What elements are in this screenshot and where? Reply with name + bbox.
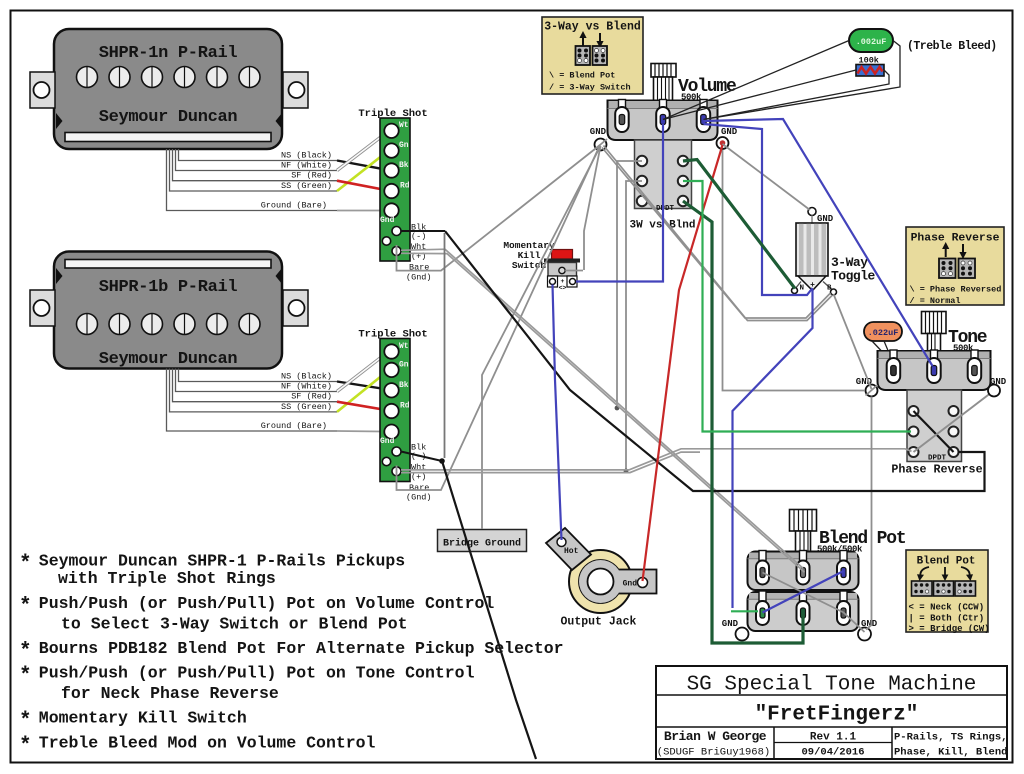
Triple Shot 1 pad labels xyxy=(406,223,432,283)
pickup SHPR-1b body xyxy=(54,252,282,369)
svg-text:SF (Red): SF (Red) xyxy=(291,171,332,181)
blend pot upper lug stems xyxy=(759,551,847,561)
wire: volume GND right to tone GND left xyxy=(723,150,866,391)
svg-text:"FretFingerz": "FretFingerz" xyxy=(755,704,919,727)
output jack hot lug xyxy=(546,528,591,570)
Triple Shot 1 output pads xyxy=(382,227,401,256)
svg-text:Seymour Duncan SHPR-1 P-Rails: Seymour Duncan SHPR-1 P-Rails Pickups xyxy=(39,552,405,571)
svg-text:Push/Push (or Push/Pull) Pot o: Push/Push (or Push/Pull) Pot on Tone Con… xyxy=(39,664,475,683)
title block xyxy=(656,666,1007,759)
svg-text:Bk: Bk xyxy=(399,381,409,390)
svg-text:SHPR-1n P-Rail: SHPR-1n P-Rail xyxy=(99,44,238,63)
svg-text:Ground (Bare): Ground (Bare) xyxy=(261,421,327,431)
Triple Shot 1 Blk pad wire xyxy=(401,230,445,232)
volume DPDT push-pull section xyxy=(635,140,692,209)
wire: TS1 black down-link xyxy=(444,233,446,458)
svg-text:3-Way vs Blend: 3-Way vs Blend xyxy=(544,21,641,34)
wire: volume mid lug to kill switch blue xyxy=(576,124,663,282)
svg-text:Gn: Gn xyxy=(399,141,409,150)
notes bullet list xyxy=(19,552,564,759)
blend pot shaft xyxy=(790,510,817,552)
volume pot body xyxy=(608,101,718,141)
legend box: Blend Pot xyxy=(906,550,988,632)
wire: volume GND to bridge ground xyxy=(482,146,601,529)
svg-text:Gnd: Gnd xyxy=(623,580,638,589)
svg-text:DPDT: DPDT xyxy=(928,455,947,463)
svg-text:N: N xyxy=(800,285,805,293)
pickup SHPR-1b lead crossing: red SF to Rd xyxy=(337,402,388,411)
blend pot lower lug stems xyxy=(759,591,847,601)
svg-text:SHPR-1b P-Rail: SHPR-1b P-Rail xyxy=(99,278,238,297)
svg-text:/ = 3-Way Switch: / = 3-Way Switch xyxy=(549,83,631,93)
kill switch body xyxy=(548,263,577,277)
svg-text:to Select 3-Way Switch or Blen: to Select 3-Way Switch or Blend Pot xyxy=(61,615,408,634)
svg-text:*: * xyxy=(19,710,32,733)
svg-text:Seymour Duncan: Seymour Duncan xyxy=(99,350,238,369)
svg-text:Output Jack: Output Jack xyxy=(561,616,637,629)
svg-text:09/04/2016: 09/04/2016 xyxy=(801,747,864,759)
svg-text:for Neck Phase Reverse: for Neck Phase Reverse xyxy=(61,684,279,703)
pickup SHPR-1b right mounting tab xyxy=(283,290,308,326)
svg-text:Momentary Kill Switch: Momentary Kill Switch xyxy=(39,709,247,728)
Triple Shot 2 pad labels xyxy=(406,443,432,503)
treble bleed capacitor .002uF xyxy=(849,29,893,52)
legend box: 3-Way vs Blend xyxy=(542,17,643,94)
Triple Shot 1 hole labels xyxy=(380,121,410,225)
svg-text:Gn: Gn xyxy=(399,361,409,370)
svg-text:*: * xyxy=(19,553,32,576)
legend up arrow xyxy=(582,36,584,46)
svg-text:*: * xyxy=(19,665,32,688)
wire: toggle B to blend blue xyxy=(733,289,813,608)
pickup SHPR-1b bare lead to Gnd xyxy=(337,430,385,433)
svg-text:/ = Normal: / = Normal xyxy=(910,296,961,306)
svg-text:SS (Green): SS (Green) xyxy=(281,402,332,412)
svg-text:Blend Pot: Blend Pot xyxy=(917,556,976,568)
wire: black hot run TS1 to phase switch xyxy=(445,231,985,491)
svg-text:Wt: Wt xyxy=(399,342,409,351)
svg-text:(Gnd): (Gnd) xyxy=(406,273,432,283)
svg-text:Toggle: Toggle xyxy=(831,269,876,284)
svg-text:Bridge Ground: Bridge Ground xyxy=(443,538,521,550)
svg-text:Brian W George: Brian W George xyxy=(664,729,767,744)
wire: volume DPDT upper-left leg xyxy=(617,161,642,408)
tone DPDT jumper black xyxy=(914,411,954,452)
volume pot lug holes xyxy=(619,115,625,125)
svg-text:*: * xyxy=(19,596,32,619)
3-way toggle base xyxy=(798,276,826,291)
blend pot upper lugs xyxy=(756,561,850,585)
pickup SHPR-1n left mounting tab xyxy=(30,72,55,108)
svg-text:Push/Push (or Push/Pull) Pot o: Push/Push (or Push/Pull) Pot on Volume C… xyxy=(39,594,495,613)
volume GND slash marks xyxy=(594,139,607,150)
tone capacitor .022uF xyxy=(864,322,902,341)
svg-text:Seymour Duncan: Seymour Duncan xyxy=(99,108,238,127)
svg-text:Phase Reverse: Phase Reverse xyxy=(911,233,1000,245)
svg-text:Bourns PDB182 Blend Pot For Al: Bourns PDB182 Blend Pot For Alternate Pi… xyxy=(39,639,564,658)
wire: black run TS2 junction down xyxy=(442,461,536,759)
tone DPDT jumper gray to GND xyxy=(914,391,995,453)
treble bleed resistor 100k xyxy=(856,65,884,77)
tone pot lug stems xyxy=(890,350,978,359)
wire: toggle B to tone GND left xyxy=(834,294,872,389)
wire: TS1 white pair to blend pot xyxy=(401,249,803,568)
svg-text:P-Rails, TS Rings,: P-Rails, TS Rings, xyxy=(894,732,1007,744)
svg-text:Wt: Wt xyxy=(399,121,409,130)
wire: blend lower-left green link xyxy=(731,610,758,612)
Triple Shot 1 solder holes xyxy=(384,124,398,218)
wire: volume DPDT to toggle N dark green xyxy=(683,160,795,289)
kill switch terminal lugs xyxy=(548,276,578,287)
svg-text:<>: <> xyxy=(559,285,567,292)
blend legend left curved arrow xyxy=(920,567,929,577)
svg-text:< = Neck (CCW): < = Neck (CCW) xyxy=(909,603,985,613)
pickup SHPR-1n harness labels xyxy=(261,151,332,211)
3-way toggle GND terminal xyxy=(808,208,834,225)
wire: volume DPDT mid-left leg xyxy=(626,181,642,471)
wire: TS1 bare to volume GND xyxy=(397,145,601,271)
momentary kill switch labels xyxy=(503,240,555,271)
tone pot lug holes xyxy=(891,366,897,376)
svg-text:.002uF: .002uF xyxy=(856,37,887,47)
blend legend center arrow xyxy=(944,567,946,576)
pickup SHPR-1b harness labels xyxy=(261,372,332,432)
wire: volume DPDT to tone DPDT green xyxy=(683,181,911,432)
wire: blend crossover blue xyxy=(763,571,844,613)
svg-text:SS (Green): SS (Green) xyxy=(281,181,332,191)
kill switch internal terminal xyxy=(559,267,565,273)
blend pot GND left terminal xyxy=(722,619,749,641)
Triple Shot 2 output pads xyxy=(382,447,401,476)
svg-text:Bk: Bk xyxy=(399,161,409,170)
svg-text:GND: GND xyxy=(722,619,739,629)
blend pot lower lug holes xyxy=(760,608,765,618)
Triple Shot 2 solder holes xyxy=(384,344,398,439)
blend pot upper gang body xyxy=(748,552,859,591)
pickup SHPR-1b lead crossing: black NS to Bk xyxy=(337,382,388,390)
3-way toggle N terminal xyxy=(792,288,798,294)
volume GND right terminal xyxy=(717,127,738,149)
svg-text:Rd: Rd xyxy=(400,402,410,411)
svg-text:*: * xyxy=(19,735,32,758)
svg-text:Phase Reverse: Phase Reverse xyxy=(891,463,982,477)
treble bleed wiring xyxy=(663,41,900,120)
legend box: Phase Reverse xyxy=(906,227,1004,305)
svg-text:GND: GND xyxy=(721,127,738,137)
svg-text:(-): (-) xyxy=(411,232,426,242)
pickup SHPR-1n harness wires xyxy=(167,149,338,211)
svg-text:GND: GND xyxy=(990,377,1007,387)
svg-text:> = Bridge (CW): > = Bridge (CW) xyxy=(909,624,990,634)
svg-text:(Gnd): (Gnd) xyxy=(406,493,432,503)
tone DPDT push-pull section xyxy=(907,390,962,462)
3-way toggle body xyxy=(796,223,828,276)
svg-text:Treble Bleed Mod on Volume Con: Treble Bleed Mod on Volume Control xyxy=(39,734,376,753)
svg-text:Phase, Kill, Blend: Phase, Kill, Blend xyxy=(894,747,1007,759)
blend pot lower lugs xyxy=(756,601,850,625)
svg-text:B: B xyxy=(827,285,832,293)
volume DPDT terminals xyxy=(637,156,688,206)
tone pot body xyxy=(878,351,991,390)
tone DPDT terminals xyxy=(909,406,959,457)
pickup SHPR-1b rail bar xyxy=(65,260,271,269)
phase legend block normal xyxy=(959,259,976,279)
svg-text:NS (Black): NS (Black) xyxy=(281,372,332,382)
svg-text:| = Both (Ctr): | = Both (Ctr) xyxy=(909,614,985,624)
pickup SHPR-1n body xyxy=(54,29,282,149)
volume GND left terminal xyxy=(590,127,607,151)
wire: volume DPDT to blend dark green xyxy=(683,201,803,643)
phase legend up arrow xyxy=(945,247,947,257)
pickup SHPR-1n rail bar xyxy=(65,133,271,142)
pickup SHPR-1n pole pieces xyxy=(77,67,261,88)
wire: volume GND to kill switch xyxy=(584,146,601,270)
svg-text:*: * xyxy=(19,641,32,664)
svg-text:(Treble Bleed): (Treble Bleed) xyxy=(907,40,997,53)
pickup SHPR-1n corner notches xyxy=(56,113,63,129)
pickup SHPR-1n lead crossing: white NF to Wt xyxy=(337,132,388,171)
svg-text:SF (Red): SF (Red) xyxy=(291,392,332,402)
pickup SHPR-1n right mounting tab xyxy=(283,72,308,108)
svg-text:Ground (Bare): Ground (Bare) xyxy=(261,201,327,211)
svg-text:Rev 1.1: Rev 1.1 xyxy=(810,732,857,744)
Triple Shot 2 Blk pad wire and junction xyxy=(401,452,442,462)
svg-text:\ = Blend Pot: \ = Blend Pot xyxy=(549,71,615,81)
pickup SHPR-1n lead crossing: green SS to Gn xyxy=(337,151,388,191)
volume pot lug stems xyxy=(619,100,708,109)
volume pot shaft xyxy=(651,64,676,101)
tone GND right terminal xyxy=(988,377,1007,397)
wire: volume right lug to tone mid lug blue xyxy=(704,119,933,366)
svg-text:(SDUGF BriGuy1968): (SDUGF BriGuy1968) xyxy=(657,747,770,759)
pickup SHPR-1b lead crossing: green SS to Gn xyxy=(337,371,388,412)
phase legend down arrow xyxy=(962,244,964,254)
output jack sleeve xyxy=(569,550,632,613)
kill switch red button xyxy=(552,250,573,260)
wire: kill switch to jack hot blue xyxy=(553,285,562,541)
svg-text:Bare: Bare xyxy=(409,483,429,493)
blend legend right curved arrow xyxy=(961,567,970,577)
Triple Shot ring board 1 xyxy=(380,118,410,261)
pickup SHPR-1b lead crossing: white NF to Wt xyxy=(337,352,388,392)
svg-text:GND: GND xyxy=(590,127,607,137)
pickup SHPR-1b pole pieces xyxy=(77,314,261,335)
svg-text:.022uF: .022uF xyxy=(868,328,899,338)
legend down arrow xyxy=(599,33,601,43)
svg-text:\ = Phase Reversed: \ = Phase Reversed xyxy=(910,285,1002,295)
wire: TS2 white pair to tone DPDT xyxy=(401,449,912,470)
tone capacitor leads xyxy=(872,341,892,360)
wire: volume right lug to toggle common blue xyxy=(704,124,813,295)
wire: TS2 bare to volume GND xyxy=(397,145,601,490)
svg-text:Gnd: Gnd xyxy=(380,437,395,446)
wire: shield pair volume GND to toggle B xyxy=(602,148,831,319)
wire: volume GND right to toggle GND xyxy=(723,144,811,210)
wire: volume GND right to jack ground red xyxy=(643,145,723,581)
svg-text:Hot: Hot xyxy=(564,547,579,556)
svg-text:NF (White): NF (White) xyxy=(281,382,332,392)
svg-text:NS (Black): NS (Black) xyxy=(281,151,332,161)
volume pot lugs xyxy=(615,107,710,132)
phase legend block reversed xyxy=(939,259,956,279)
svg-text:with Triple Shot Rings: with Triple Shot Rings xyxy=(58,569,276,588)
bridge ground tag xyxy=(438,530,527,552)
tone pot shaft xyxy=(922,312,947,352)
wire: blend gray jumper xyxy=(763,573,865,633)
tone GND left terminal xyxy=(856,377,878,397)
svg-text:SG Special Tone Machine: SG Special Tone Machine xyxy=(687,674,977,697)
Triple Shot ring board 2 xyxy=(380,339,410,482)
legend push-switch block down=blend xyxy=(576,46,591,65)
svg-text:Gnd: Gnd xyxy=(380,216,395,225)
blend legend switch blocks xyxy=(912,581,933,596)
wire: tone GND left to blend GND right xyxy=(866,397,872,630)
pickup SHPR-1n lead crossing: black NS to Bk xyxy=(337,161,388,171)
pickup SHPR-1b harness wires xyxy=(167,369,338,432)
svg-text:NF (White): NF (White) xyxy=(281,161,332,171)
svg-text:Rd: Rd xyxy=(400,182,410,191)
Triple Shot 2 hole labels xyxy=(380,342,410,446)
pickup SHPR-1b left mounting tab xyxy=(30,290,55,326)
blend pot GND right terminal xyxy=(858,619,878,641)
pickup SHPR-1n lead crossing: red SF to Rd xyxy=(337,181,388,191)
kill switch top plate xyxy=(544,259,580,263)
output jack ground lug xyxy=(579,560,657,603)
blend pot lower gang body xyxy=(748,592,859,631)
tone pot lugs xyxy=(887,358,982,383)
3-way toggle terminal stubs xyxy=(795,282,833,291)
legend push-switch block up=3-way xyxy=(593,46,608,65)
pickup SHPR-1b corner notches xyxy=(56,268,63,284)
pickup SHPR-1n bare lead to Gnd xyxy=(337,210,385,212)
3-way toggle B terminal xyxy=(831,289,837,295)
blend pot upper lug holes xyxy=(760,568,765,578)
